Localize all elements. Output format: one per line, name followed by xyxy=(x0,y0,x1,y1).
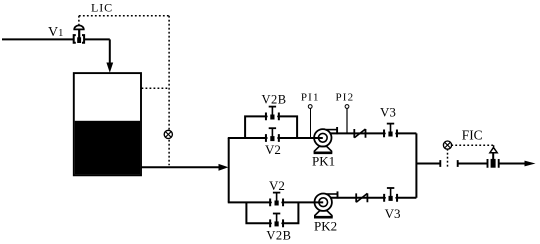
svg-text:PI1: PI1 xyxy=(301,92,320,104)
signal: LIC dotted vertical xyxy=(168,16,170,166)
signal: tank level tap dotted xyxy=(142,87,170,89)
wire: tank outlet to header with arrow xyxy=(141,166,220,168)
valve V3 (bottom) xyxy=(384,188,397,202)
wire: outlet line to orifice xyxy=(416,163,440,165)
orifice flange right xyxy=(457,160,459,167)
level element ⊗ xyxy=(164,130,172,138)
valve V2 (bottom main) xyxy=(270,193,283,207)
signal: LIC dotted horizontal xyxy=(79,15,169,17)
wire: right header vertical xyxy=(415,133,417,197)
wire: corner down to tank with arrow xyxy=(109,39,111,63)
wire: bottom bypass loop xyxy=(246,202,298,223)
svg-text:V2B: V2B xyxy=(266,229,291,243)
check valve top branch xyxy=(354,129,365,138)
valve V2B (bottom bypass) xyxy=(270,214,283,228)
orifice flange left xyxy=(439,160,441,167)
wire: orifice to control valve and out xyxy=(458,163,526,165)
pump PK1 xyxy=(314,129,331,146)
svg-text:PK2: PK2 xyxy=(314,218,337,233)
wire: bottom branch after pump xyxy=(330,197,416,199)
instrument PI2 stem xyxy=(346,108,348,133)
wire: left header vertical xyxy=(228,138,230,202)
instrument PI1 circle xyxy=(308,105,312,109)
svg-text:V3: V3 xyxy=(385,206,401,221)
svg-text:V2: V2 xyxy=(265,142,281,157)
svg-text:V1: V1 xyxy=(48,25,63,40)
tank T1 liquid fill xyxy=(75,121,140,175)
pump PK1 discharge and base xyxy=(314,127,338,153)
outflow arrow xyxy=(525,161,536,167)
wire: top bypass loop xyxy=(245,116,297,138)
signal: FE dotted vertical xyxy=(447,149,449,169)
svg-text:V2B: V2B xyxy=(261,92,286,106)
valve V2B (top bypass) xyxy=(266,107,279,121)
svg-text:V3: V3 xyxy=(380,104,396,119)
instrument PI2 circle xyxy=(345,105,349,109)
svg-text:PI2: PI2 xyxy=(335,92,354,104)
valve V2 (top main) xyxy=(266,128,279,142)
wire: feed line into V1 xyxy=(2,38,110,40)
instrument PI1 stem xyxy=(310,108,312,137)
signal: FIC dotted horizontal xyxy=(451,144,494,146)
svg-text:PK1: PK1 xyxy=(312,154,335,169)
valve V3 (top) xyxy=(384,124,397,138)
pump PK2 discharge and base xyxy=(314,191,338,217)
wire: top branch after pump xyxy=(330,132,417,134)
tank T1 xyxy=(74,73,141,175)
valve V1 (control valve, diaphragm actuator) xyxy=(74,25,84,43)
control valve FV (with actuator triangle) xyxy=(488,147,499,168)
signal: FIC dotted drop to valve xyxy=(493,145,495,147)
pump PK2 xyxy=(315,194,332,211)
signal: LIC dotted stem above V1 xyxy=(78,16,80,25)
wire: bottom branch main line xyxy=(228,201,323,203)
svg-text:FIC: FIC xyxy=(462,128,483,143)
svg-text:V2: V2 xyxy=(269,178,285,193)
check valve bottom branch xyxy=(356,193,367,202)
svg-text:LIC: LIC xyxy=(91,1,113,15)
wire: top branch main line xyxy=(228,137,323,139)
flow element ⊗ xyxy=(443,141,451,149)
